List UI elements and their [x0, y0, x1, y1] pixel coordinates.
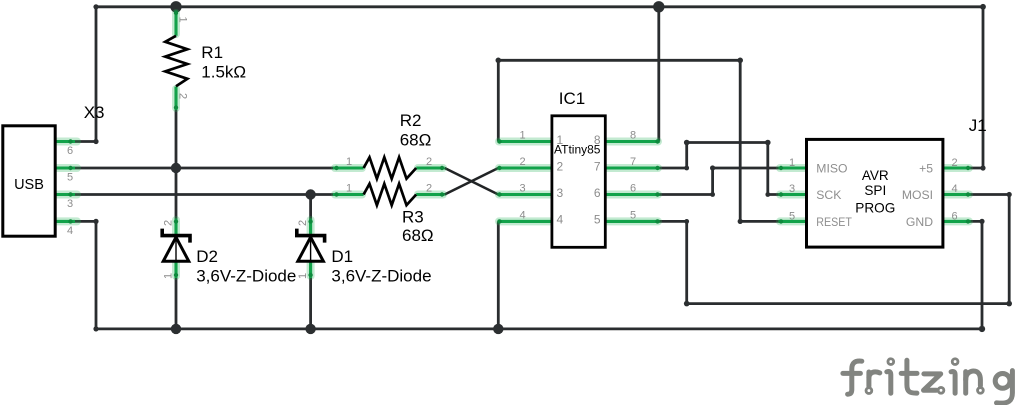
D1 pins	[309, 219, 312, 235]
svg-text:4: 4	[520, 210, 526, 222]
svg-text:PROG: PROG	[855, 200, 895, 215]
svg-text:GND: GND	[906, 215, 933, 229]
wire IC1 pin5 to J1 MOSI	[659, 195, 1009, 304]
svg-text:5: 5	[630, 210, 636, 222]
wire USB pin4 to bottom rail	[72, 221, 96, 329]
green pin terminals	[68, 11, 970, 277]
wire USB pin3 to R3	[72, 193, 335, 196]
svg-text:2: 2	[426, 156, 432, 168]
J1 AVR SPI PROG box	[807, 139, 943, 247]
wire IC1 pin1 RESET path to J1 pin5	[498, 60, 780, 221]
svg-text:R3: R3	[402, 207, 424, 226]
svg-text:2: 2	[951, 157, 957, 169]
crossover wires R2/R3 to IC1	[445, 168, 499, 195]
wire USB pin6 to top rail	[72, 7, 96, 142]
zener diode D1 symbol	[297, 229, 325, 262]
svg-text:5: 5	[594, 213, 601, 227]
svg-text:2: 2	[557, 159, 564, 173]
svg-text:1: 1	[520, 130, 526, 142]
svg-text:D2: D2	[196, 247, 218, 266]
USB pins 6,5,3,4	[56, 140, 76, 143]
wire D2 anode to bottom rail	[175, 260, 178, 329]
wire IC1 pin8 to top rail	[657, 7, 660, 142]
wire +5 to top rail	[969, 7, 983, 168]
J1 right pins	[943, 166, 971, 169]
svg-text:3: 3	[789, 183, 795, 195]
wire D1 anode to bottom rail	[309, 260, 312, 329]
svg-text:RESET: RESET	[816, 215, 852, 229]
svg-text:3: 3	[557, 186, 564, 200]
IC1 inner pin numbers	[557, 133, 601, 227]
svg-text:4: 4	[557, 213, 564, 227]
svg-text:MISO: MISO	[816, 161, 847, 175]
resistor R3 zigzag	[364, 184, 417, 205]
svg-text:2: 2	[520, 156, 526, 168]
svg-text:8: 8	[630, 130, 636, 142]
USB connector X3 box	[3, 126, 55, 236]
svg-text:3,6V-Z-Diode: 3,6V-Z-Diode	[331, 267, 431, 286]
green pin stubs	[56, 11, 971, 279]
svg-text:3: 3	[67, 198, 73, 210]
svg-text:SCK: SCK	[816, 188, 841, 202]
pin number labels R2 R3	[346, 156, 432, 195]
svg-text:MOSI: MOSI	[902, 188, 933, 202]
svg-text:6: 6	[594, 186, 601, 200]
svg-text:SPI: SPI	[864, 183, 886, 198]
svg-text:4: 4	[67, 225, 73, 237]
pin number labels J1	[789, 157, 958, 222]
svg-text:4: 4	[951, 183, 957, 195]
IC1 right pins	[605, 140, 659, 143]
R1 pins	[174, 11, 177, 36]
svg-text:2: 2	[297, 220, 309, 226]
D2 pins	[174, 219, 177, 235]
wire IC1 pin4 to bottom rail	[497, 221, 500, 329]
wire R1 bottom to node and D2	[175, 108, 178, 236]
svg-text:68Ω: 68Ω	[400, 130, 432, 149]
wire bottom GND rail	[96, 327, 982, 330]
R3 pins	[333, 193, 364, 196]
svg-text:1: 1	[297, 273, 309, 279]
svg-text:ATtiny85: ATtiny85	[554, 143, 601, 157]
svg-text:R1: R1	[201, 43, 223, 62]
svg-text:6: 6	[630, 183, 636, 195]
svg-text:6: 6	[951, 210, 957, 222]
wire USB pin5 to R2	[72, 167, 335, 170]
svg-text:+5: +5	[919, 161, 933, 175]
svg-text:5: 5	[67, 172, 73, 184]
wire IC1 pin7 to J1 SCK	[659, 143, 779, 195]
svg-text:7: 7	[594, 159, 601, 173]
svg-text:1.5kΩ: 1.5kΩ	[201, 63, 246, 82]
wire D1 cathode to node	[309, 195, 312, 237]
svg-text:D1: D1	[331, 247, 353, 266]
green pin halos	[57, 13, 969, 276]
svg-text:6: 6	[67, 145, 73, 157]
IC1 box	[552, 116, 605, 248]
svg-text:1: 1	[346, 156, 352, 168]
svg-text:1: 1	[789, 157, 795, 169]
fritzing logo	[843, 360, 1013, 403]
svg-text:AVR: AVR	[862, 168, 889, 183]
J1 left pins	[779, 166, 807, 169]
R2 pins	[333, 166, 364, 169]
wire bend dots	[93, 4, 1012, 332]
wire IC1 pin6 to J1 MISO	[659, 168, 780, 195]
svg-text:2: 2	[162, 220, 174, 226]
svg-text:2: 2	[177, 93, 189, 99]
svg-text:1: 1	[346, 183, 352, 195]
svg-text:1: 1	[162, 273, 174, 279]
svg-text:2: 2	[426, 183, 432, 195]
svg-text:5: 5	[789, 210, 795, 222]
wire top VCC rail	[96, 5, 983, 8]
pin number labels USB	[67, 145, 73, 237]
IC1 left pins	[498, 140, 552, 143]
svg-text:IC1: IC1	[559, 89, 585, 108]
svg-text:3: 3	[520, 183, 526, 195]
svg-text:1: 1	[177, 17, 189, 23]
svg-text:68Ω: 68Ω	[402, 226, 434, 245]
pin number labels IC1 outside	[520, 130, 637, 222]
wire J1 GND to bottom rail	[969, 221, 982, 329]
svg-text:7: 7	[630, 156, 636, 168]
resistor R2 zigzag	[364, 157, 417, 178]
resistor R1 zigzag	[165, 36, 187, 87]
zener diode D2 symbol	[162, 229, 190, 262]
svg-text:3,6V-Z-Diode: 3,6V-Z-Diode	[196, 267, 296, 286]
svg-text:USB: USB	[14, 177, 44, 193]
svg-text:R2: R2	[400, 111, 422, 130]
svg-text:J1: J1	[969, 116, 987, 135]
svg-text:X3: X3	[84, 103, 105, 122]
